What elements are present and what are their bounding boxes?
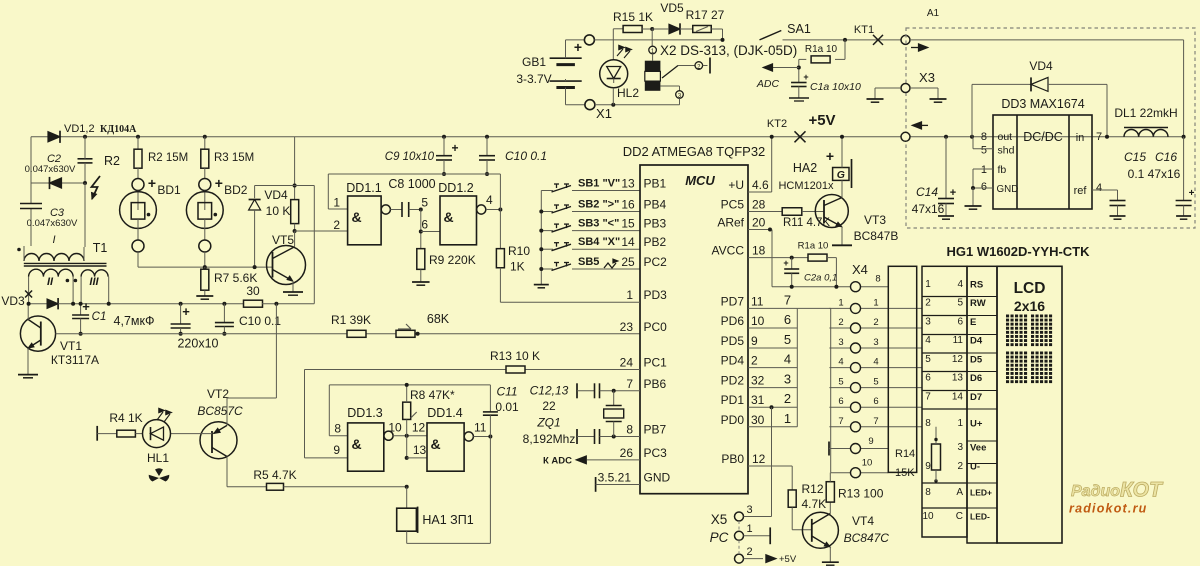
svg-text:X2 DS-313, (DJK-05D): X2 DS-313, (DJK-05D) bbox=[660, 43, 797, 58]
svg-text:ref: ref bbox=[1074, 185, 1088, 197]
svg-text:18: 18 bbox=[752, 244, 766, 258]
svg-text:1: 1 bbox=[784, 411, 791, 426]
svg-text:+: + bbox=[451, 141, 458, 155]
svg-text:X3: X3 bbox=[919, 70, 935, 85]
svg-text:PD3: PD3 bbox=[644, 288, 668, 302]
svg-text:C10 0.1: C10 0.1 bbox=[239, 314, 281, 328]
svg-text:КТ3117А: КТ3117А bbox=[51, 353, 99, 367]
svg-text:7: 7 bbox=[925, 392, 931, 403]
svg-text:C10 0.1: C10 0.1 bbox=[505, 149, 547, 163]
svg-text:GND: GND bbox=[997, 184, 1019, 195]
svg-text:220x10: 220x10 bbox=[177, 337, 218, 351]
svg-text:2: 2 bbox=[751, 354, 758, 368]
svg-text:&: & bbox=[430, 436, 440, 452]
svg-text:+: + bbox=[783, 258, 788, 268]
svg-text:radiokot.ru: radiokot.ru bbox=[1069, 502, 1147, 516]
svg-text:5: 5 bbox=[981, 145, 987, 157]
svg-text:32: 32 bbox=[751, 374, 765, 388]
svg-text:in: in bbox=[1076, 132, 1085, 144]
svg-text:4: 4 bbox=[784, 352, 791, 367]
svg-text:6: 6 bbox=[421, 218, 428, 232]
svg-text:ARef: ARef bbox=[717, 216, 744, 230]
svg-text:BD1: BD1 bbox=[157, 183, 181, 197]
svg-text:out: out bbox=[998, 131, 1013, 143]
svg-text:0.1: 0.1 bbox=[1128, 167, 1145, 181]
svg-text:PC2: PC2 bbox=[644, 255, 668, 269]
svg-text:VD5: VD5 bbox=[660, 1, 684, 15]
svg-text:4: 4 bbox=[1096, 182, 1102, 194]
svg-text:10: 10 bbox=[922, 511, 934, 522]
svg-text:6: 6 bbox=[838, 396, 843, 407]
svg-text:C8 1000: C8 1000 bbox=[388, 177, 435, 191]
svg-text:2: 2 bbox=[747, 546, 753, 558]
svg-text:GB1: GB1 bbox=[522, 55, 546, 69]
svg-text:14: 14 bbox=[952, 392, 964, 403]
svg-text:C15: C15 bbox=[1124, 150, 1146, 164]
svg-text:D6: D6 bbox=[970, 373, 982, 384]
svg-text:8: 8 bbox=[925, 487, 931, 498]
svg-text:3: 3 bbox=[957, 442, 963, 453]
svg-text:1: 1 bbox=[873, 297, 878, 308]
svg-text:R13 10 K: R13 10 K bbox=[490, 349, 540, 363]
svg-text:LED+: LED+ bbox=[970, 488, 992, 498]
svg-text:C: C bbox=[956, 511, 963, 522]
svg-text:LED-: LED- bbox=[970, 512, 990, 522]
svg-text:G: G bbox=[837, 169, 845, 181]
svg-text:31: 31 bbox=[751, 393, 765, 407]
svg-text:DD1.1: DD1.1 bbox=[346, 181, 381, 195]
svg-text:PB6: PB6 bbox=[644, 377, 667, 391]
svg-text:PD0: PD0 bbox=[721, 413, 745, 427]
svg-text:PD2: PD2 bbox=[721, 374, 745, 388]
svg-text:PB3: PB3 bbox=[644, 217, 667, 231]
svg-text:III: III bbox=[89, 276, 99, 288]
svg-text:VT1: VT1 bbox=[60, 339, 82, 353]
svg-text:47x16: 47x16 bbox=[912, 202, 945, 216]
svg-text:HG1 W1602D-YYH-CTK: HG1 W1602D-YYH-CTK bbox=[946, 244, 1090, 259]
svg-text:VT3: VT3 bbox=[864, 213, 886, 227]
svg-text:PD4: PD4 bbox=[721, 354, 745, 368]
svg-text:R15 1K: R15 1K bbox=[613, 10, 653, 24]
svg-text:К ADC: К ADC bbox=[543, 456, 572, 467]
svg-text:8: 8 bbox=[981, 131, 987, 143]
svg-text:5: 5 bbox=[873, 377, 878, 388]
svg-text:X4: X4 bbox=[852, 262, 868, 277]
svg-text:+: + bbox=[950, 187, 956, 199]
svg-text:PB1: PB1 bbox=[644, 177, 667, 191]
svg-text:D5: D5 bbox=[970, 355, 983, 366]
svg-text:3: 3 bbox=[747, 504, 753, 516]
svg-text:6: 6 bbox=[925, 373, 931, 384]
svg-text:5: 5 bbox=[838, 377, 843, 388]
svg-text:U-: U- bbox=[970, 462, 980, 473]
svg-text:3-3.7V: 3-3.7V bbox=[516, 72, 551, 86]
svg-text:I: I bbox=[52, 234, 55, 246]
svg-text:12: 12 bbox=[952, 354, 964, 365]
svg-text:8: 8 bbox=[875, 274, 880, 285]
svg-text:4.7K: 4.7K bbox=[802, 497, 827, 511]
svg-text:5: 5 bbox=[421, 196, 428, 210]
svg-text:SB5: SB5 bbox=[578, 256, 599, 268]
svg-text:PB0: PB0 bbox=[721, 452, 744, 466]
svg-text:1: 1 bbox=[925, 279, 931, 290]
svg-text:8: 8 bbox=[626, 423, 633, 437]
svg-text:30: 30 bbox=[246, 284, 260, 298]
svg-text:+5V: +5V bbox=[808, 112, 835, 129]
svg-text:4: 4 bbox=[957, 279, 963, 290]
svg-text:12: 12 bbox=[412, 421, 426, 435]
svg-text:&: & bbox=[351, 209, 361, 225]
svg-text:11: 11 bbox=[953, 335, 964, 346]
svg-text:C14: C14 bbox=[916, 185, 938, 199]
svg-text:MCU: MCU bbox=[685, 173, 715, 188]
svg-text:+: + bbox=[803, 72, 808, 82]
svg-text:DD1.2: DD1.2 bbox=[438, 181, 473, 195]
svg-text:R3 15M: R3 15M bbox=[214, 152, 254, 164]
svg-text:HA2: HA2 bbox=[793, 161, 817, 175]
svg-text:3: 3 bbox=[784, 372, 791, 387]
svg-text:HCM1201x: HCM1201x bbox=[778, 180, 834, 192]
svg-text:2: 2 bbox=[925, 298, 931, 309]
svg-text:7: 7 bbox=[873, 416, 878, 427]
svg-text:R1a 10: R1a 10 bbox=[805, 44, 838, 55]
svg-text:10: 10 bbox=[862, 458, 873, 469]
svg-text:DD1.4: DD1.4 bbox=[427, 406, 462, 420]
svg-text:0.01: 0.01 bbox=[495, 400, 519, 414]
svg-text:R5 4.7K: R5 4.7K bbox=[253, 468, 296, 482]
svg-text:PD5: PD5 bbox=[721, 334, 745, 348]
svg-text:3.5.21: 3.5.21 bbox=[598, 471, 632, 485]
svg-text:R4 1K: R4 1K bbox=[109, 411, 142, 425]
svg-text:PC5: PC5 bbox=[721, 198, 745, 212]
svg-text:PC0: PC0 bbox=[644, 320, 668, 334]
svg-text:SB2 ">": SB2 ">" bbox=[578, 199, 619, 211]
svg-text:1: 1 bbox=[981, 164, 987, 176]
svg-text:30: 30 bbox=[751, 413, 765, 427]
svg-text:E: E bbox=[970, 317, 976, 328]
svg-text:BC847B: BC847B bbox=[854, 229, 899, 243]
svg-text:AVCC: AVCC bbox=[712, 244, 745, 258]
svg-text:+: + bbox=[182, 304, 190, 319]
svg-text:11: 11 bbox=[751, 294, 764, 308]
svg-text:U+: U+ bbox=[970, 419, 983, 430]
svg-text:8: 8 bbox=[925, 418, 931, 429]
svg-text:3: 3 bbox=[838, 337, 843, 348]
svg-text:DL1 22mkH: DL1 22mkH bbox=[1114, 106, 1177, 120]
svg-text:1K: 1K bbox=[510, 260, 525, 274]
svg-text:fb: fb bbox=[998, 164, 1007, 176]
svg-text:13: 13 bbox=[621, 177, 635, 191]
svg-text:+: + bbox=[148, 175, 156, 191]
svg-text:15K: 15K bbox=[895, 467, 915, 479]
svg-text:R14: R14 bbox=[895, 448, 915, 460]
svg-text:DD2 ATMEGA8 TQFP32: DD2 ATMEGA8 TQFP32 bbox=[623, 144, 766, 159]
svg-text:КД104А: КД104А bbox=[100, 124, 137, 135]
svg-text:2: 2 bbox=[957, 461, 963, 472]
svg-text:SB4 "X": SB4 "X" bbox=[578, 236, 620, 248]
svg-text:1: 1 bbox=[957, 418, 963, 429]
svg-text:DC/DC: DC/DC bbox=[1023, 130, 1063, 144]
svg-text:T1: T1 bbox=[93, 241, 108, 255]
svg-text:23: 23 bbox=[620, 320, 634, 334]
svg-text:R2: R2 bbox=[104, 154, 120, 168]
svg-text:KT1: KT1 bbox=[854, 24, 874, 36]
svg-text:VD4: VD4 bbox=[1029, 59, 1053, 73]
svg-text:28: 28 bbox=[752, 198, 766, 212]
svg-text:X5: X5 bbox=[711, 512, 728, 527]
svg-text:R9 220K: R9 220K bbox=[429, 253, 476, 267]
svg-text:RS: RS bbox=[970, 280, 983, 291]
svg-text:&: & bbox=[351, 436, 361, 452]
svg-text:22: 22 bbox=[542, 399, 556, 413]
svg-text:PD6: PD6 bbox=[721, 314, 745, 328]
svg-text:13: 13 bbox=[952, 373, 964, 384]
svg-text:C12,13: C12,13 bbox=[530, 384, 569, 398]
svg-text:R1a 10: R1a 10 bbox=[798, 241, 829, 252]
svg-text:A: A bbox=[956, 487, 963, 498]
svg-text:R7 5.6K: R7 5.6K bbox=[214, 271, 257, 285]
svg-text:9: 9 bbox=[868, 436, 873, 447]
svg-text:R10: R10 bbox=[508, 244, 530, 258]
svg-text:II: II bbox=[47, 276, 54, 288]
svg-text:14: 14 bbox=[621, 235, 635, 249]
svg-text:DD3 MAX1674: DD3 MAX1674 bbox=[1001, 97, 1084, 111]
svg-text:25: 25 bbox=[621, 255, 635, 269]
svg-text:12: 12 bbox=[752, 452, 766, 466]
svg-text:+5V: +5V bbox=[779, 554, 797, 565]
svg-text:PD1: PD1 bbox=[721, 393, 745, 407]
svg-text:6: 6 bbox=[957, 317, 963, 328]
svg-text:3: 3 bbox=[873, 337, 878, 348]
svg-text:GND: GND bbox=[644, 471, 671, 485]
svg-text:D7: D7 bbox=[970, 392, 982, 403]
svg-text:4: 4 bbox=[925, 335, 931, 346]
svg-text:BC857C: BC857C bbox=[197, 404, 243, 418]
svg-text:C1: C1 bbox=[92, 311, 107, 323]
svg-text:10: 10 bbox=[388, 421, 402, 435]
svg-text:1: 1 bbox=[333, 196, 340, 210]
svg-text:PC3: PC3 bbox=[644, 446, 668, 460]
svg-text:7: 7 bbox=[838, 416, 843, 427]
svg-text:RW: RW bbox=[970, 298, 986, 309]
svg-text:8: 8 bbox=[334, 422, 341, 436]
svg-text:КОТ: КОТ bbox=[1120, 479, 1164, 502]
svg-text:10: 10 bbox=[751, 314, 765, 328]
svg-text:C9 10x10: C9 10x10 bbox=[385, 151, 435, 163]
svg-text:D4: D4 bbox=[970, 336, 983, 347]
svg-text:9: 9 bbox=[751, 334, 758, 348]
svg-text:C16: C16 bbox=[1155, 150, 1177, 164]
svg-text:2: 2 bbox=[838, 317, 843, 328]
svg-text:R17 27: R17 27 bbox=[686, 8, 725, 22]
svg-text:LCD: LCD bbox=[1014, 280, 1046, 297]
svg-text:C2a 0,1: C2a 0,1 bbox=[804, 273, 837, 284]
svg-text:A1: A1 bbox=[927, 8, 940, 19]
svg-text:BD2: BD2 bbox=[224, 183, 248, 197]
svg-text:Vee: Vee bbox=[970, 443, 986, 454]
svg-text:R12: R12 bbox=[802, 482, 824, 496]
svg-text:9: 9 bbox=[925, 461, 931, 472]
svg-text:11: 11 bbox=[474, 421, 487, 435]
svg-text:1: 1 bbox=[747, 523, 753, 535]
svg-text:VT2: VT2 bbox=[207, 387, 229, 401]
svg-text:4: 4 bbox=[838, 357, 843, 368]
svg-text:10 K: 10 K bbox=[266, 204, 291, 218]
svg-text:4: 4 bbox=[873, 357, 878, 368]
svg-text:20: 20 bbox=[752, 216, 766, 230]
svg-text:Радио: Радио bbox=[1071, 483, 1120, 500]
svg-text:13: 13 bbox=[413, 443, 427, 457]
svg-text:15: 15 bbox=[621, 217, 635, 231]
svg-text:+: + bbox=[82, 299, 90, 314]
svg-text:PB7: PB7 bbox=[644, 423, 667, 437]
svg-text:SA1: SA1 bbox=[787, 22, 811, 36]
svg-text:1: 1 bbox=[626, 288, 633, 302]
svg-text:HL1: HL1 bbox=[147, 451, 169, 465]
svg-text:+: + bbox=[826, 148, 834, 164]
svg-text:9: 9 bbox=[333, 443, 340, 457]
svg-text:4,7мкФ: 4,7мкФ bbox=[114, 314, 155, 328]
svg-text:VD1,2: VD1,2 bbox=[64, 123, 95, 135]
svg-text:4: 4 bbox=[486, 193, 493, 207]
svg-text:HA1 ЗП1: HA1 ЗП1 bbox=[422, 513, 473, 527]
svg-text:6: 6 bbox=[981, 181, 987, 193]
svg-text:SB1 "V": SB1 "V" bbox=[578, 178, 620, 190]
svg-text:5: 5 bbox=[925, 354, 931, 365]
svg-text:0.047x630V: 0.047x630V bbox=[27, 218, 78, 229]
svg-text:VT5: VT5 bbox=[272, 233, 294, 247]
svg-text:VD3: VD3 bbox=[1, 294, 25, 308]
svg-text:VD4: VD4 bbox=[264, 188, 288, 202]
svg-text:ADC: ADC bbox=[756, 78, 780, 90]
svg-text:R2 15M: R2 15M bbox=[148, 152, 188, 164]
svg-text:7: 7 bbox=[1096, 131, 1102, 143]
svg-text:+: + bbox=[574, 39, 582, 55]
svg-text:BC847C: BC847C bbox=[844, 531, 890, 545]
svg-text:PB4: PB4 bbox=[644, 198, 667, 212]
svg-text:&: & bbox=[443, 209, 453, 225]
svg-text:PB2: PB2 bbox=[644, 235, 667, 249]
svg-text:R13 100: R13 100 bbox=[838, 487, 884, 501]
svg-text:68K: 68K bbox=[427, 312, 450, 326]
svg-text:HL2: HL2 bbox=[617, 86, 639, 100]
svg-text:PC: PC bbox=[710, 530, 729, 545]
svg-text:24: 24 bbox=[620, 356, 634, 370]
svg-text:2: 2 bbox=[333, 218, 340, 232]
svg-text:X1: X1 bbox=[596, 106, 612, 121]
svg-text:5: 5 bbox=[957, 298, 963, 309]
svg-text:C11: C11 bbox=[496, 385, 517, 399]
svg-text:2: 2 bbox=[873, 317, 878, 328]
svg-text:4.6: 4.6 bbox=[752, 178, 769, 192]
svg-text:PD7: PD7 bbox=[721, 294, 745, 308]
svg-text:26: 26 bbox=[620, 446, 634, 460]
svg-text:R1 39K: R1 39K bbox=[331, 313, 371, 327]
svg-text:VT4: VT4 bbox=[852, 514, 874, 528]
svg-text:47x16: 47x16 bbox=[1148, 167, 1181, 181]
svg-text:R8 47K*: R8 47K* bbox=[410, 388, 455, 402]
svg-text:KT2: KT2 bbox=[767, 118, 787, 130]
svg-text:+: + bbox=[215, 175, 223, 191]
svg-text:ZQ1: ZQ1 bbox=[536, 416, 560, 430]
svg-text:DD1.3: DD1.3 bbox=[347, 406, 382, 420]
svg-text:6: 6 bbox=[784, 312, 791, 327]
svg-text:1: 1 bbox=[838, 297, 843, 308]
svg-text:C1a 10x10: C1a 10x10 bbox=[810, 81, 861, 93]
svg-text:16: 16 bbox=[621, 198, 635, 212]
svg-text:2: 2 bbox=[784, 391, 791, 406]
svg-text:7: 7 bbox=[626, 377, 633, 391]
svg-text:0.047x630V: 0.047x630V bbox=[25, 164, 76, 175]
svg-text:PC1: PC1 bbox=[644, 356, 668, 370]
svg-text:6: 6 bbox=[873, 396, 878, 407]
svg-text:5: 5 bbox=[784, 332, 791, 347]
svg-text:+U: +U bbox=[728, 178, 744, 192]
svg-text:SB3 "<": SB3 "<" bbox=[578, 218, 619, 230]
svg-text:2x16: 2x16 bbox=[1014, 298, 1045, 314]
svg-text:8,192Mhz: 8,192Mhz bbox=[523, 432, 576, 446]
svg-text:3: 3 bbox=[925, 317, 931, 328]
svg-text:shd: shd bbox=[998, 145, 1015, 157]
svg-text:+: + bbox=[1189, 188, 1195, 199]
svg-text:7: 7 bbox=[784, 292, 791, 307]
